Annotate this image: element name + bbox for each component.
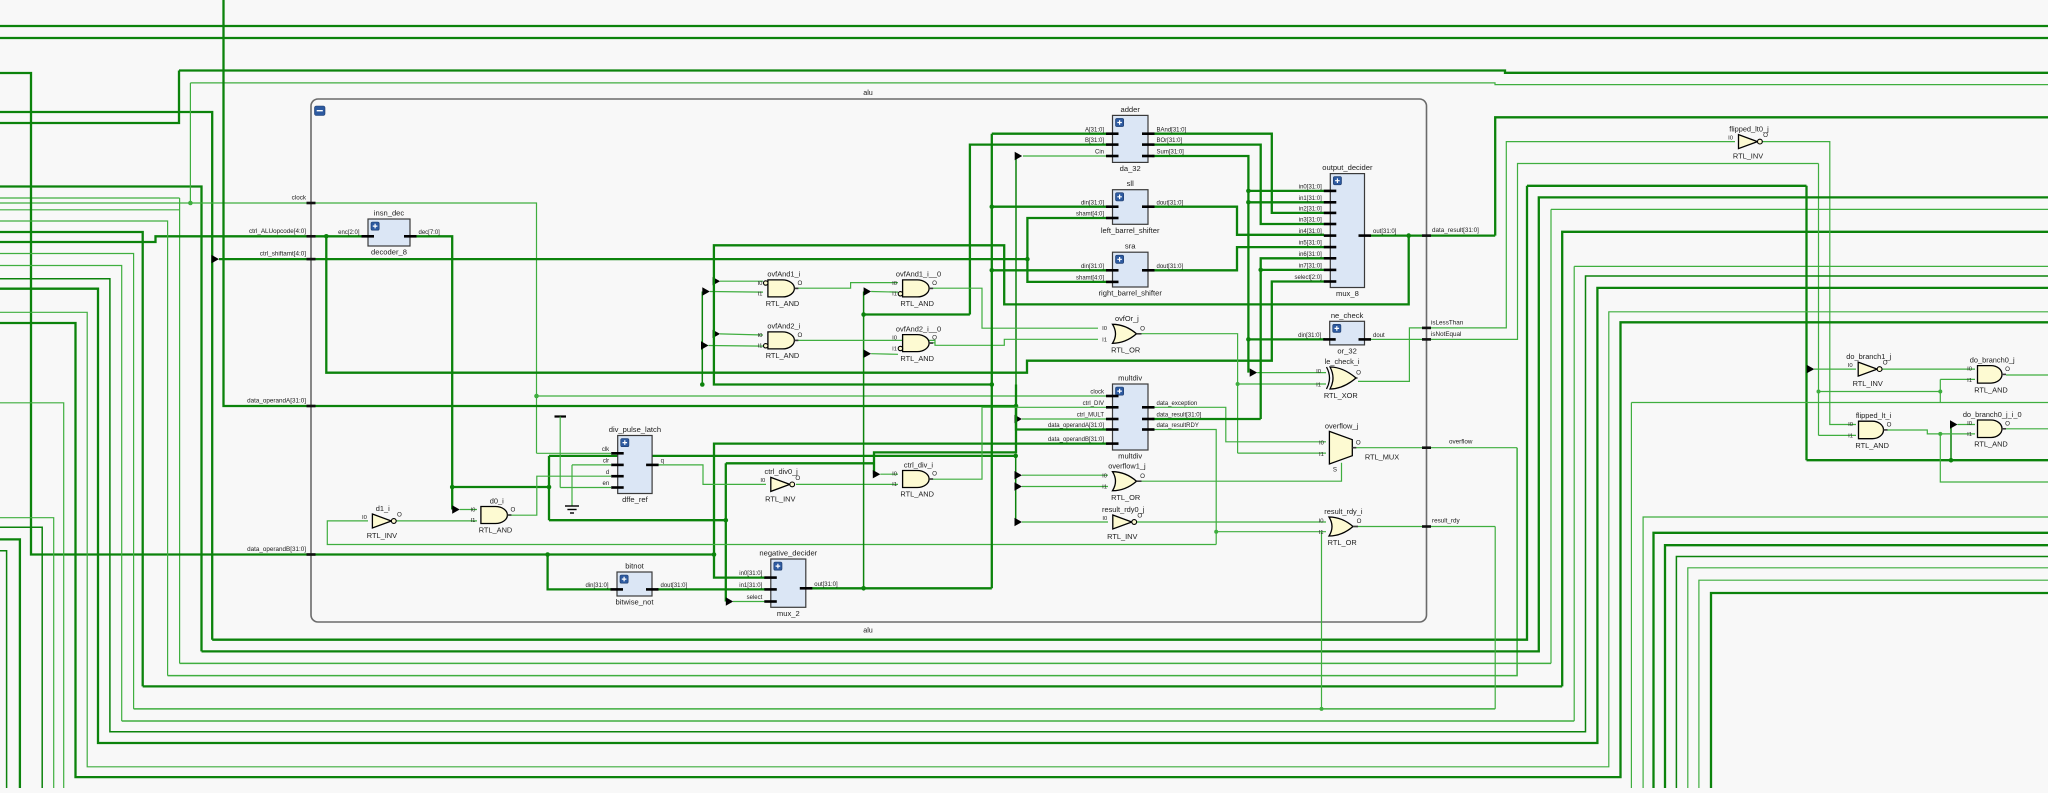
svg-text:overflow_j: overflow_j (1325, 421, 1359, 430)
wire shiftamt to sra (1027, 259, 1106, 282)
wire do_branch feed vertical (1805, 186, 1807, 460)
wire wire_f 1321 riser (1321, 532, 1323, 709)
svg-text:I1: I1 (1848, 433, 1853, 439)
gate ctrl_div0_j (RTL_INV) (760, 467, 800, 503)
wire gnd riser (571, 465, 573, 506)
svg-text:BOr[31:0]: BOr[31:0] (1157, 138, 1183, 144)
svg-text:O: O (1887, 422, 1892, 429)
svg-text:left_barrel_shifter: left_barrel_shifter (1101, 226, 1160, 235)
wire result_rdy_i I1 wire (1216, 531, 1326, 533)
wire ovfAnd2_0 I1 wire (871, 353, 898, 356)
node flipped dot (1938, 432, 1942, 436)
wire dffe en wire (560, 487, 611, 489)
mux overflow_j (RTL_MUX) (1319, 421, 1399, 473)
alu hierarchy box (311, 99, 1427, 622)
svg-text:select[2:0]: select[2:0] (1294, 275, 1322, 281)
wire ovf vertical x702.3 (701, 292, 703, 385)
svg-text:in4[31:0]: in4[31:0] (1299, 229, 1322, 235)
svg-text:isLessThan: isLessThan (1431, 320, 1464, 327)
gate result_rdy_i (RTL_OR) (1319, 507, 1363, 547)
svg-text:A[31:0]: A[31:0] (1085, 127, 1104, 133)
wire negdec out vertical (991, 134, 993, 589)
svg-text:I0: I0 (1319, 519, 1325, 525)
svg-text:adder: adder (1120, 105, 1140, 114)
block sll (sll/left_barrel_shifter) (1076, 179, 1184, 235)
wire do_branch0 out (2006, 374, 2048, 376)
wire dec 520 line (549, 519, 726, 521)
svg-text:ctrl_shiftamt[4:0]: ctrl_shiftamt[4:0] (260, 251, 306, 258)
wire do_branch0_i0 riser (1950, 425, 1952, 461)
wire wire_c right y209.4 (1551, 208, 2048, 210)
wire brx2 (1643, 517, 2048, 788)
alu collapse badge (315, 106, 326, 116)
svg-text:data_result[31:0]: data_result[31:0] (1157, 413, 1202, 419)
svg-text:I0: I0 (892, 336, 898, 342)
wire bus_top1 y26 (0, 25, 2048, 27)
wire ovfAnd1 I1 wire (710, 291, 763, 294)
wire overflow1 I0 wire (1022, 474, 1108, 476)
svg-text:I1: I1 (1319, 452, 1324, 458)
wire wire_g right vertical (1573, 266, 1575, 721)
wire dec 455.9 line (549, 455, 1016, 457)
svg-text:RTL_INV: RTL_INV (1853, 379, 1883, 388)
node clock branch multdiv (534, 394, 539, 399)
svg-text:O: O (932, 335, 937, 342)
wire operandB down to mux2 in0 (714, 555, 765, 578)
svg-text:RTL_INV: RTL_INV (1107, 532, 1137, 541)
svg-text:result_rdy_i: result_rdy_i (1324, 507, 1363, 516)
wire data_resultRDY (1152, 430, 1216, 545)
wire ctrl_ALUopcode entry (0, 236, 368, 242)
node ctrl_MULT arrow (arrow) (1015, 415, 1023, 423)
svg-text:I0: I0 (760, 478, 766, 484)
svg-text:I0: I0 (1316, 369, 1322, 375)
wire 314 line (864, 313, 970, 315)
wire flipped_lt out (1887, 430, 1975, 434)
wire do_branch0_j_i_0 out (2006, 428, 2048, 430)
svg-text:RTL_AND: RTL_AND (766, 299, 800, 308)
svg-text:le_check_i: le_check_i (1325, 357, 1360, 366)
wire mux I1 wire (1238, 452, 1326, 454)
wire bus_top2 y38 (0, 37, 2048, 39)
svg-text:B[31:0]: B[31:0] (1085, 138, 1104, 144)
wire exit2 (0, 539, 20, 788)
node clock junction (188, 201, 193, 206)
svg-text:d: d (606, 470, 609, 476)
constant tie bar (555, 415, 567, 417)
wire data_result feedback (714, 236, 1409, 385)
svg-text:data_operandB[31:0]: data_operandB[31:0] (1048, 437, 1104, 443)
node in7 dot (1258, 268, 1263, 273)
svg-text:div_pulse_latch: div_pulse_latch (609, 425, 661, 434)
wire clock to dffe clk (537, 452, 612, 454)
node dec dot1015 (1013, 454, 1018, 459)
wire brx1 (1630, 403, 1632, 789)
wire d1 loop (327, 521, 1216, 545)
wire mux8 out (1369, 234, 1495, 236)
svg-text:O: O (932, 471, 937, 478)
svg-text:O: O (1356, 439, 1361, 446)
gate ovfOr_j (RTL_OR) (1102, 314, 1145, 354)
wire in7 stub (1261, 269, 1324, 271)
node ovf 702 dot (700, 382, 705, 387)
wire overflow1 I1 wire (1022, 486, 1108, 488)
svg-text:in1[31:0]: in1[31:0] (1299, 196, 1322, 202)
svg-text:ctrl_div_i: ctrl_div_i (904, 460, 934, 469)
wire clock to multdiv (537, 395, 1107, 397)
wire d0 out chain (504, 476, 612, 515)
svg-text:bitnot: bitnot (625, 562, 644, 571)
svg-text:RTL_AND: RTL_AND (900, 490, 934, 499)
wire wire_c bottom y663.4 (180, 662, 1551, 664)
svg-text:I0: I0 (1102, 516, 1108, 522)
svg-text:I0: I0 (1967, 421, 1973, 427)
wire ovfAnd2 I1 wire (709, 345, 764, 348)
wire adder Cin (1023, 155, 1106, 157)
wire dec 487 line (452, 486, 549, 488)
svg-text:I0: I0 (892, 471, 898, 477)
svg-text:ctrl_DIV: ctrl_DIV (1083, 401, 1104, 407)
svg-text:overflow: overflow (1449, 438, 1473, 445)
wire bus_P left y123 (0, 71, 179, 124)
svg-text:O: O (2005, 420, 2010, 427)
svg-text:I1: I1 (1967, 378, 1972, 384)
block div_pulse_latch (div_pulse_latch/dffe_ref) (602, 425, 664, 504)
wire wire_e bottom y686.4 (143, 685, 1563, 687)
wire overflow out (1356, 447, 1517, 449)
svg-text:data_operandB[31:0]: data_operandB[31:0] (247, 546, 306, 553)
svg-text:I1: I1 (470, 518, 475, 524)
wire brx1 top (1631, 402, 2048, 404)
wire do_branch1 out (1881, 368, 1976, 370)
svg-text:alu: alu (863, 626, 873, 635)
wire wire_h (0, 276, 2048, 732)
svg-text:O: O (932, 280, 937, 287)
wire data_operandB entry (0, 73, 714, 555)
svg-text:sll: sll (1127, 179, 1134, 188)
svg-text:do_branch0_j: do_branch0_j (1970, 355, 2015, 364)
wire do_branch0 I1 wire (1940, 378, 1975, 380)
svg-text:ovfAnd1_i__0: ovfAnd1_i__0 (896, 270, 941, 279)
wire operandB up to multdiv (714, 444, 1106, 555)
border crossing ticks (307, 202, 316, 205)
node ctrl_ALUopcode junction (324, 234, 329, 239)
svg-text:I1: I1 (1319, 530, 1324, 536)
wire d1 out to d0 I1 (395, 520, 477, 522)
svg-text:en: en (603, 481, 610, 487)
node do_branch1 I0 arrow (arrow) (1807, 365, 1815, 373)
wire isNotEqual (1369, 164, 1819, 340)
wire exit5 (0, 403, 64, 788)
wire clock vertical x190 (189, 83, 191, 203)
node dec dot549 (547, 485, 552, 490)
wire brx7 (1699, 580, 2048, 788)
wire negdec out (808, 587, 992, 589)
wire decoder dec out (410, 236, 452, 509)
wire exit1 (0, 551, 7, 788)
svg-text:O: O (797, 280, 802, 287)
svg-text:clk: clk (602, 447, 610, 453)
node ovfAnd1 I0 arrow (arrow) (713, 277, 721, 285)
svg-text:in2[31:0]: in2[31:0] (1299, 207, 1322, 213)
svg-text:ne_check: ne_check (1331, 311, 1364, 320)
svg-text:data_resultRDY: data_resultRDY (1157, 423, 1199, 429)
svg-text:mux_8: mux_8 (1336, 289, 1359, 298)
svg-text:in3[31:0]: in3[31:0] (1299, 218, 1322, 224)
wire brx4 (1665, 545, 2048, 788)
svg-text:RTL_INV: RTL_INV (1733, 152, 1763, 161)
node dot 314 at 863 (861, 312, 866, 317)
wire data_operandA (224, 0, 1107, 430)
svg-text:O: O (1357, 518, 1362, 525)
svg-text:I1: I1 (757, 344, 762, 350)
wire brx3 (1654, 533, 2048, 788)
svg-text:insn_dec: insn_dec (374, 209, 405, 218)
wire bitnot dout (657, 588, 765, 590)
svg-text:data_exception: data_exception (1157, 401, 1198, 407)
wire wire_e right (1562, 232, 2048, 687)
node overflow1 I1 arrow (arrow) (1015, 482, 1023, 490)
svg-text:in7[31:0]: in7[31:0] (1299, 264, 1322, 270)
svg-text:I1: I1 (1102, 485, 1107, 491)
wire ovfAnd1_0 I1 feed (863, 292, 865, 589)
svg-text:O: O (797, 332, 802, 339)
svg-text:RTL_MUX: RTL_MUX (1365, 453, 1399, 462)
wire dffe q wire (658, 465, 766, 485)
svg-text:or_32: or_32 (1337, 347, 1356, 356)
svg-text:din[31:0]: din[31:0] (1298, 333, 1321, 339)
svg-text:select: select (747, 595, 763, 601)
svg-text:RTL_OR: RTL_OR (1328, 538, 1357, 547)
wire multdiv ctrl_MULT (1022, 418, 1106, 420)
wire wire_i (0, 288, 2048, 743)
wire operandB to bitnot (548, 555, 611, 590)
svg-text:I0: I0 (757, 333, 763, 339)
block negative_decider (negative_decider/mux_2) (739, 549, 838, 618)
wire ctrl_div0 out (796, 483, 898, 485)
svg-text:I0: I0 (1319, 441, 1325, 447)
wire wire_f left (0, 254, 134, 709)
wire en riser (559, 417, 561, 488)
wire data_exception (1152, 407, 1326, 442)
svg-text:RTL_AND: RTL_AND (766, 351, 800, 360)
block multdiv (multdiv/multdiv) (1048, 374, 1202, 461)
node do_branch0_j_i_0 I0 arrow (arrow) (1950, 420, 1958, 428)
svg-text:O: O (2005, 366, 2010, 373)
svg-text:out[31:0]: out[31:0] (1373, 229, 1397, 235)
wire result_rdy0 I0 wire (1022, 521, 1108, 523)
svg-text:do_branch1_j: do_branch1_j (1846, 352, 1891, 361)
svg-text:RTL_INV: RTL_INV (765, 494, 795, 503)
wire ovfAnd1 I0 wire (720, 280, 763, 282)
wire sra dout chain (1152, 247, 1324, 270)
block adder (adder/da_32) (1085, 105, 1187, 173)
gate result_rdy0_j (RTL_INV) (1102, 505, 1145, 541)
svg-text:in1[31:0]: in1[31:0] (739, 583, 762, 589)
svg-text:ovfAnd2_i__0: ovfAnd2_i__0 (896, 324, 941, 333)
svg-text:data_operandA[31:0]: data_operandA[31:0] (247, 398, 306, 405)
wire do_branch0_j_i_0 I0 wire (1958, 424, 1976, 426)
svg-text:clock: clock (1090, 390, 1105, 396)
wire ovfAnd2 I0 wire (720, 334, 763, 335)
svg-text:dffe_ref: dffe_ref (622, 495, 649, 504)
gate ovfAnd1_i_0 (RTL_AND) (892, 270, 941, 308)
svg-text:data_result[31:0]: data_result[31:0] (1432, 227, 1479, 234)
wire ovfAnd2_0 out jog (929, 342, 935, 344)
node mux2 select arrow (arrow) (726, 597, 733, 605)
node ctrl_div_i I0 arrow (arrow) (873, 470, 881, 478)
wire overflow1 out to S (1137, 463, 1342, 482)
svg-text:flipped_lt_i: flipped_lt_i (1856, 411, 1892, 420)
svg-text:I1: I1 (1316, 382, 1321, 388)
svg-text:d0_i: d0_i (490, 496, 504, 505)
svg-text:alu: alu (863, 88, 873, 97)
svg-text:din[31:0]: din[31:0] (1081, 264, 1104, 270)
wire brx8 (1711, 593, 2048, 788)
node overflow1 I0 arrow (arrow) (1015, 471, 1023, 479)
svg-text:q: q (661, 459, 664, 465)
wire cin feed vertical (1015, 156, 1017, 406)
node sum in0 dot (1246, 189, 1251, 194)
wire sra din (992, 269, 1106, 271)
wire wire_c left top stub y198 (0, 197, 180, 199)
svg-text:BAnd[31:0]: BAnd[31:0] (1157, 127, 1187, 133)
svg-text:I0: I0 (1728, 135, 1734, 141)
gate ovfAnd1_i (RTL_AND) (757, 270, 802, 308)
svg-text:ctrl_MULT: ctrl_MULT (1077, 413, 1105, 419)
wire wire_f bottom y708.9 (134, 708, 1496, 710)
svg-text:dec[7:0]: dec[7:0] (419, 230, 441, 236)
wire shiftamt to sll (1027, 218, 1106, 259)
svg-text:dout[31:0]: dout[31:0] (1157, 264, 1184, 270)
wire wire_c left y209.8 (0, 209, 180, 211)
wire ovfOr out (1140, 334, 1238, 453)
svg-text:enc[2:0]: enc[2:0] (338, 230, 360, 236)
node cin arrow (arrow) (1015, 152, 1023, 160)
wire brx5 (1676, 557, 2048, 789)
wire wire_c vertical x179.6 (179, 198, 181, 663)
svg-text:output_decider: output_decider (1322, 163, 1373, 172)
node result_rdy0 I0 arrow (arrow) (1015, 518, 1023, 526)
gate d1_i (RTL_INV) (362, 504, 402, 540)
node xor I0 arrow (arrow) (1250, 368, 1258, 376)
svg-text:I1: I1 (1967, 432, 1972, 438)
svg-text:multdiv: multdiv (1118, 374, 1142, 383)
svg-text:Cin: Cin (1095, 150, 1104, 156)
svg-text:RTL_INV: RTL_INV (367, 531, 397, 540)
wire ovfAnd1_0 I1 wire (871, 291, 898, 294)
wire wire_b bottom (202, 197, 2048, 651)
svg-text:O: O (510, 507, 515, 514)
svg-text:dout[31:0]: dout[31:0] (1157, 200, 1184, 206)
wire result_rdy out (1354, 526, 1495, 528)
svg-text:decoder_8: decoder_8 (371, 248, 407, 257)
wire wire_g left (0, 266, 122, 722)
svg-text:O: O (397, 512, 402, 519)
wire dec 463 line (726, 462, 874, 464)
svg-text:I0: I0 (1848, 363, 1854, 369)
wire xor I1 wire (1238, 383, 1326, 385)
wire data_result exit (1495, 117, 2048, 235)
wire wire_a (212, 186, 1527, 640)
svg-text:ovfOr_j: ovfOr_j (1115, 314, 1139, 323)
svg-text:I0: I0 (1102, 473, 1108, 479)
svg-text:in0[31:0]: in0[31:0] (1299, 185, 1322, 191)
node data_result junction (1406, 233, 1411, 238)
wire do_branch1 I0 wire (1814, 368, 1856, 370)
svg-text:I1: I1 (892, 346, 897, 352)
node wire_f 1321 dot (1320, 707, 1324, 711)
wire ovfAnd2 out (795, 339, 1099, 345)
node dot 1951 (1949, 458, 1954, 463)
svg-text:I1: I1 (757, 292, 762, 298)
wire ctrl_div staircase (874, 385, 1016, 475)
svg-text:in5[31:0]: in5[31:0] (1299, 241, 1322, 247)
wire wire_g right y266.4 (1574, 265, 2048, 267)
wire clock into alu (190, 203, 536, 453)
node ovfAnd1 I1 arrow (arrow) (702, 287, 710, 295)
svg-text:I0: I0 (1848, 422, 1854, 428)
wire multdiv data_result (1152, 418, 1261, 420)
wire clock stub left (0, 202, 190, 204)
wire ovfAnd1 out (795, 283, 899, 289)
svg-text:clr: clr (603, 459, 609, 465)
wire adder A wire (992, 133, 1106, 135)
wire do_branch0 I1 chain (1819, 391, 1941, 393)
svg-text:out[31:0]: out[31:0] (814, 582, 838, 588)
svg-text:O: O (1140, 473, 1145, 480)
wire dec v2 x1015.7 (1015, 456, 1017, 522)
block bitnot (bitnot/bitwise_not) (585, 562, 687, 607)
svg-text:data_operandA[31:0]: data_operandA[31:0] (1048, 423, 1104, 429)
wire wire_d bottom y674.8 (168, 448, 1518, 676)
wire BOr to in3 (1152, 145, 1324, 224)
node dot 1940 (1938, 390, 1942, 394)
wire in0 stub (1248, 190, 1324, 192)
svg-text:clock: clock (292, 195, 307, 202)
svg-text:RTL_OR: RTL_OR (1111, 346, 1140, 355)
wire flipped_lt I1 vertical (1818, 164, 1820, 436)
gate do_branch0_j (RTL_AND) (1967, 355, 2015, 394)
svg-text:d1_i: d1_i (376, 504, 390, 513)
gate flipped_lt_i (RTL_AND) (1848, 411, 1892, 450)
svg-text:RTL_AND: RTL_AND (900, 354, 934, 363)
wire Sum out (1152, 156, 1248, 373)
wire flipped_lt0 out (1762, 142, 1856, 425)
node ovfAnd2_0 I1 arrow (arrow) (864, 350, 872, 358)
svg-text:I0: I0 (757, 281, 763, 287)
svg-text:dout[31:0]: dout[31:0] (661, 583, 688, 589)
wire wire_c right vertical x1551 (1550, 209, 1552, 663)
gate do_branch1_j (RTL_INV) (1846, 352, 1891, 388)
wire sll dout to in4 (1152, 207, 1324, 235)
wire wire_e left y232 (0, 232, 143, 686)
wire dffe clr wire (572, 464, 611, 466)
gate d0_i (RTL_AND) (470, 496, 515, 534)
svg-text:RTL_OR: RTL_OR (1111, 493, 1140, 502)
wire ctrl_shiftamt (219, 258, 1027, 260)
wire wire_j (0, 312, 2048, 767)
svg-text:multdiv: multdiv (1118, 452, 1142, 461)
wire dec vertical x725.75 (725, 463, 727, 601)
wire flipped out branch down (1940, 434, 2048, 482)
wire xor I0 wire (1257, 372, 1326, 374)
wire wire_d left (0, 221, 168, 676)
svg-text:overflow1_j: overflow1_j (1108, 462, 1146, 471)
wire flipped_lt I1 wire (1819, 434, 1857, 436)
wire wire_f right vertical (1494, 527, 1496, 709)
svg-text:result_rdy0_j: result_rdy0_j (1102, 505, 1145, 514)
